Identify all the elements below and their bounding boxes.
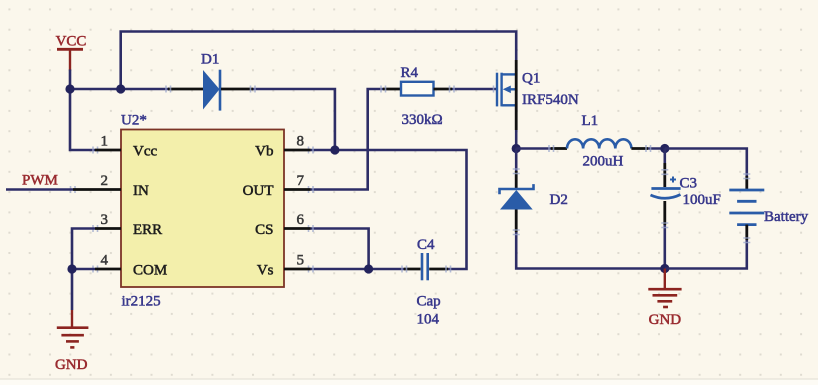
pin end markers: [71, 86, 751, 273]
U2 pin 7 OUT: [243, 173, 311, 199]
U2 pin 6 CS: [255, 212, 310, 238]
junction C3 top node: [660, 144, 669, 153]
wire VCC vertical to horizontal rail: [70, 70, 169, 90]
U2 pin 3 ERR: [95, 212, 162, 238]
ground GND left: [55, 310, 88, 373]
wire OUT to R4/gate riser: [311, 89, 384, 190]
svg-text:PWM: PWM: [22, 173, 58, 189]
svg-text:330kΩ: 330kΩ: [402, 112, 443, 128]
svg-text:IRF540N: IRF540N: [522, 92, 579, 108]
svg-text:Vb: Vb: [255, 144, 273, 160]
svg-text:2: 2: [101, 173, 109, 189]
wire D1 cathode to Vb node: [253, 89, 335, 150]
U2 pin 5 Vs: [257, 253, 311, 279]
wire ERR/COM to ground: [72, 229, 95, 311]
svg-text:VCC: VCC: [56, 34, 87, 50]
junction at top-rail drop: [116, 84, 125, 93]
svg-text:D2: D2: [550, 192, 568, 208]
wire Vs to C4: [311, 268, 405, 271]
junction CS/Vs node: [364, 264, 373, 273]
svg-text:OUT: OUT: [243, 183, 274, 199]
svg-text:U2*: U2*: [121, 113, 147, 129]
svg-text:IN: IN: [133, 183, 149, 199]
svg-text:GND: GND: [649, 312, 682, 328]
svg-text:Battery: Battery: [764, 209, 809, 225]
wire R4 to Q1 gate: [452, 88, 496, 91]
svg-text:R4: R4: [401, 65, 419, 81]
svg-text:3: 3: [101, 212, 109, 228]
U2 pin 8 Vb: [255, 134, 310, 160]
IC U2 ir2125 body: [121, 113, 284, 310]
svg-text:C3: C3: [680, 175, 698, 191]
svg-text:Vs: Vs: [257, 263, 274, 279]
U2 pin 4 COM: [95, 253, 167, 279]
wire switch node down to D2: [515, 149, 518, 172]
wire CS down to Vs line: [311, 229, 369, 270]
svg-text:100uF: 100uF: [683, 192, 721, 208]
junction COM node: [67, 264, 76, 273]
wire top horizontal (Vcc rail to Q1 drain): [121, 32, 517, 90]
net label PWM wire: [6, 173, 73, 190]
svg-text:L1: L1: [582, 113, 599, 129]
svg-text:COM: COM: [133, 263, 167, 279]
wire C3 node to battery top: [665, 149, 747, 177]
transistor Q1 IRF540N: [497, 60, 579, 130]
junction bottom rail at C3: [660, 264, 669, 273]
wire L1 to C3 node: [648, 147, 665, 150]
svg-text:7: 7: [297, 173, 305, 189]
svg-text:CS: CS: [255, 222, 273, 238]
junction switch node: [512, 144, 521, 153]
svg-text:5: 5: [297, 253, 305, 269]
svg-text:ERR: ERR: [133, 222, 162, 238]
capacitor C3: [651, 149, 721, 269]
junction at VCC stem: [65, 84, 74, 93]
svg-text:6: 6: [297, 212, 305, 228]
svg-text:Q1: Q1: [522, 71, 540, 87]
svg-text:Vcc: Vcc: [133, 144, 157, 160]
svg-text:C4: C4: [417, 237, 435, 253]
wire Q1 source to switch node: [515, 130, 518, 149]
svg-text:1: 1: [101, 134, 109, 150]
diode D1: [168, 52, 253, 111]
svg-text:200uH: 200uH: [583, 154, 624, 170]
wire VCC down to U2 pin 1: [70, 89, 95, 150]
U2 pin 2 IN: [73, 173, 149, 199]
power symbol VCC: [56, 34, 87, 71]
svg-text:8: 8: [297, 134, 305, 150]
wire D2 anode to bottom rail: [516, 232, 665, 269]
diode D2 (schottky): [500, 171, 568, 232]
resistor R4: [383, 65, 452, 128]
inductor L1: [551, 113, 648, 170]
wire battery bottom to rail: [665, 240, 747, 269]
wire Vb pin 8 horizontal to C4 drop: [311, 150, 467, 269]
svg-text:D1: D1: [201, 52, 219, 68]
ground GND right: [648, 269, 681, 329]
junction Vb node: [330, 145, 339, 154]
svg-text:GND: GND: [55, 357, 88, 373]
svg-text:ir2125: ir2125: [122, 294, 161, 310]
svg-text:Cap: Cap: [417, 294, 441, 310]
svg-text:4: 4: [101, 253, 109, 269]
battery: [729, 176, 808, 240]
wire switch node to L1: [516, 147, 551, 150]
U2 pin 1 Vcc: [95, 134, 157, 160]
svg-text:104: 104: [417, 312, 440, 328]
capacitor C4: [404, 237, 448, 328]
